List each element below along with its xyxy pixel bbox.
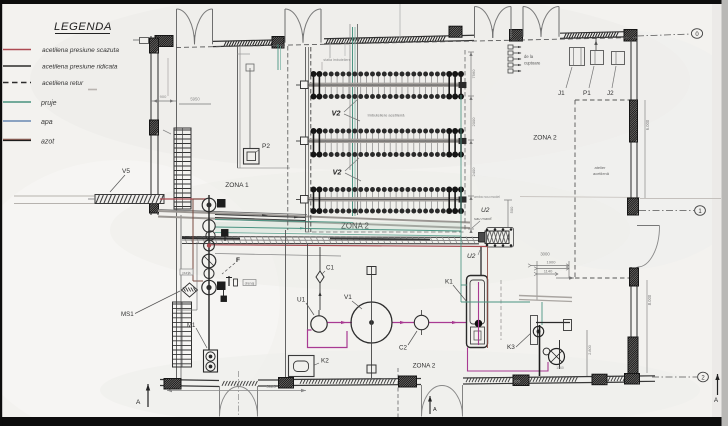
border frame top <box>0 0 728 4</box>
valve square beside circle1 <box>218 200 226 208</box>
V1 bottom square <box>367 365 376 373</box>
right wall door leaf and arc <box>637 225 660 227</box>
V1 top square <box>367 267 376 275</box>
lower staircase <box>173 302 192 367</box>
bottle manifold row1 right end fitting <box>459 82 466 87</box>
legend line acetilena presiune scazuta (red) <box>3 49 31 51</box>
svg-text:500: 500 <box>509 206 514 213</box>
svg-text:5950: 5950 <box>190 97 200 102</box>
legend line pruje (green) <box>3 101 31 103</box>
svg-text:purja: purja <box>183 271 191 275</box>
svg-text:2400: 2400 <box>471 167 476 177</box>
vertical dimension marks on left wall <box>163 130 171 134</box>
door pair top-right B (x522-560) <box>522 7 524 37</box>
manifold circle 3 <box>206 231 215 240</box>
box J2 <box>612 52 625 65</box>
left wall column block y38 <box>150 38 159 53</box>
svg-text:drenaj: drenaj <box>245 281 255 285</box>
valve square beside circle7 <box>218 282 226 290</box>
top wall door post block x512 <box>510 30 523 42</box>
K3 pump 2 flange <box>543 348 550 355</box>
bottom door pair right (x421-463) <box>421 385 423 417</box>
teal drop to K3 <box>541 302 543 325</box>
bottle room dashed boundary x310 <box>310 47 312 232</box>
bottle manifold row1 heavy end stems <box>313 74 315 97</box>
top wall corner column block x625 <box>624 30 637 42</box>
svg-text:V1: V1 <box>344 294 352 301</box>
manifold circle 2 <box>203 220 215 232</box>
pipe rack dark segment left <box>182 237 240 240</box>
compressor V1 big circle <box>351 302 392 343</box>
red acetilena line from V5 to manifold <box>160 198 206 200</box>
svg-text:V2: V2 <box>331 109 341 118</box>
axis bubble 1 with dash-dot <box>639 210 694 212</box>
bottle manifold row3 column stems <box>314 190 462 212</box>
svg-text:C2: C2 <box>399 345 407 352</box>
svg-text:cuptoare: cuptoare <box>524 61 541 66</box>
svg-text:P2: P2 <box>262 143 270 150</box>
bottle manifold row3 bottom circles row <box>311 208 465 214</box>
bottle room dashed boundary right x465 <box>464 50 466 232</box>
pipe rack dark segment mid <box>330 238 430 241</box>
svg-text:K1: K1 <box>445 279 453 286</box>
svg-text:U1: U1 <box>297 297 306 304</box>
bottom wall hatch fill segments <box>222 381 224 386</box>
tall teal line (apa) along P2 right side <box>352 27 354 216</box>
svg-text:A: A <box>714 398 718 404</box>
azot brown riser x193 <box>192 199 194 281</box>
pale green shading band <box>215 222 461 232</box>
bottle manifold row1 pipe <box>306 83 463 85</box>
teal pruje line y219 to x353 <box>215 220 353 223</box>
svg-text:acetilena presiune ridicata: acetilena presiune ridicata <box>42 64 118 71</box>
label box purja left <box>180 269 193 275</box>
bottle manifold row2 right end fitting <box>459 138 466 143</box>
upper staircase <box>174 128 191 209</box>
svg-text:V5: V5 <box>122 168 130 175</box>
teal vertical at right end of rows x461 <box>460 95 462 302</box>
small wall marks x140-150 <box>140 38 149 44</box>
pump U1 circle <box>311 316 327 332</box>
K3 pipe manifold <box>536 322 570 324</box>
gray line y254 <box>215 254 341 257</box>
svg-text:5925: 5925 <box>266 384 276 389</box>
top wall column block at x449 <box>449 26 462 37</box>
axis bubble 2 with dash-dot <box>652 376 697 378</box>
dimension line left corridor 5950 <box>151 100 176 102</box>
valve C1 diamond <box>316 271 324 283</box>
bottle manifold row1 feed box <box>301 81 309 89</box>
gray pipe band to K3 <box>519 296 572 298</box>
bottom wall corner block x625 <box>625 374 640 385</box>
svg-text:3000: 3000 <box>540 252 550 257</box>
P2 room left wall <box>237 44 239 169</box>
svg-text:pruje: pruje <box>40 100 57 107</box>
bottom door centerline dash-dot <box>238 371 240 417</box>
border frame bottom <box>0 417 728 426</box>
manifold circle 5 <box>202 254 216 268</box>
svg-text:U2: U2 <box>481 207 490 214</box>
bottom wall column block x279 <box>279 378 294 389</box>
svg-text:2000: 2000 <box>471 117 476 127</box>
pipe rack band lines y236-243 <box>182 237 479 238</box>
dimension line corridor horizontal 5950 at y104 <box>179 103 211 105</box>
svg-text:1900: 1900 <box>547 260 557 265</box>
svg-text:de la: de la <box>524 54 534 59</box>
bottle manifold row1 top circles row <box>311 71 465 77</box>
svg-text:6.000: 6.000 <box>645 119 650 130</box>
bottle manifold row3 pipe <box>306 197 463 199</box>
right wall column block y198 <box>628 198 639 215</box>
section marker A bottom left <box>147 384 149 407</box>
MS1 hatched diamond <box>182 283 198 297</box>
right wall lower segment <box>630 267 632 377</box>
svg-text:acetilena presiune scazuta: acetilena presiune scazuta <box>42 47 119 54</box>
bottle manifold row2 bottom circles row <box>311 152 465 158</box>
svg-text:J1: J1 <box>558 90 565 97</box>
faint gray line left edge (V5 pipe continuation) <box>14 195 95 197</box>
U2 cylinder left cap <box>479 233 486 243</box>
svg-text:900: 900 <box>160 94 167 99</box>
valve handle symbols below F <box>228 276 230 286</box>
left wall column block y120 <box>150 120 159 135</box>
svg-text:P1: P1 <box>583 90 591 97</box>
faint gray line right side <box>640 198 721 200</box>
dim leader vertical x537 <box>536 261 538 300</box>
bottle manifold row2 top circles row <box>311 128 465 134</box>
teal line y228 long <box>215 227 461 231</box>
valve tap symbol at y233 <box>222 230 229 237</box>
svg-text:atelier: atelier <box>595 165 607 170</box>
label box drenaj right <box>243 280 256 286</box>
U2 frame <box>487 228 514 248</box>
dashed vertical x501 below U2 <box>500 280 502 340</box>
left inner wall vertical x176 <box>176 44 178 381</box>
bottle manifold row2 heavy end stems <box>313 131 315 155</box>
dryer K1 outer <box>467 276 488 348</box>
svg-text:ZONA 2: ZONA 2 <box>533 135 557 142</box>
top wall column block at x157 <box>155 36 173 47</box>
svg-text:K2: K2 <box>321 358 329 365</box>
svg-text:F: F <box>236 257 240 264</box>
bottle room left wall double x305 <box>305 47 307 232</box>
vertical dimension line x168 <box>167 58 169 96</box>
svg-text:MS1: MS1 <box>121 311 134 318</box>
magenta discharge U1 loop <box>308 330 348 348</box>
bottom wall double line full run <box>160 380 219 381</box>
magenta drop from K1 to K3 line <box>468 348 549 372</box>
border frame right gray strip <box>722 0 728 426</box>
dimension line x508 500 <box>507 200 509 228</box>
door pair top-left (x175-213) <box>176 9 178 44</box>
vertical drop lines from top wall into bottle room <box>329 41 331 58</box>
right wall column block y337 <box>628 337 638 375</box>
bottle manifold row3 top circles row <box>311 187 465 193</box>
bottle manifold row3 feed box <box>301 196 309 204</box>
teal line y233 long <box>215 233 461 237</box>
legend line acetilena presiune ridicata (black) <box>3 65 31 67</box>
door pair top mid-left (x284-322) <box>284 9 286 43</box>
magenta main line U1 to V1 to C2 to K1 <box>328 322 353 324</box>
manifold circle 4 with red center <box>204 240 215 251</box>
door pair top-right A (x474-512) <box>474 7 476 38</box>
svg-text:A: A <box>433 407 437 413</box>
dashed zone rectangle right <box>575 99 635 101</box>
riser pipe to P2 <box>249 68 251 148</box>
K3 heavy vertical to wall <box>539 325 541 376</box>
dimension line right of bottle room x471 <box>470 52 472 229</box>
dashed zone vertical x287 upper <box>287 46 289 230</box>
top wall hatch fill west <box>224 42 226 46</box>
box J1 <box>570 48 585 66</box>
P2 room right wall black <box>357 24 359 215</box>
bottle manifold row2 feed box <box>301 137 309 145</box>
svg-text:1560: 1560 <box>556 366 564 370</box>
teal drop from top wall x278 <box>277 44 279 70</box>
section marker A bottom right <box>717 374 719 395</box>
svg-text:acetilena retur: acetilena retur <box>42 80 84 87</box>
K3 pump 2 circle <box>549 349 565 365</box>
cabinet P2 symbol <box>244 149 260 165</box>
legend line apa (blue) <box>3 120 31 122</box>
box K2 <box>289 356 315 377</box>
svg-text:J2: J2 <box>607 90 614 97</box>
svg-text:A: A <box>136 399 141 406</box>
P2 room top inner line <box>238 53 251 55</box>
ZONA2 dashed vertical x398 lower <box>397 368 399 417</box>
zona1 band dark top edge <box>158 210 307 215</box>
magenta inside K1 vertical <box>478 282 480 345</box>
bottle manifold row3 heavy end stems <box>313 190 315 212</box>
black distribution line pair with arrows y215-218 <box>215 215 305 218</box>
svg-text:8.000: 8.000 <box>647 294 652 305</box>
bottle manifold row3 right end fitting <box>459 197 466 202</box>
V1 axis vertical line <box>371 266 373 378</box>
section marker A bottom center <box>429 396 431 414</box>
U2 cylinder body <box>485 231 509 244</box>
zona1 gray band double line <box>158 211 470 223</box>
separator C2 circle <box>414 315 428 329</box>
V5 hatched pipe going left <box>95 195 164 204</box>
stray scan mark near legend <box>88 89 97 91</box>
small tap below circle7 <box>221 296 227 302</box>
svg-text:2.800: 2.800 <box>588 345 592 355</box>
svg-text:U2: U2 <box>467 253 476 260</box>
svg-text:sau manif.: sau manif. <box>474 216 492 221</box>
bottle room bottom dashed y232 <box>305 231 465 233</box>
svg-text:820: 820 <box>514 380 520 384</box>
pipe drop from U2 to K1 <box>480 247 482 276</box>
right wall upper double vertical <box>630 40 632 215</box>
svg-text:K3: K3 <box>507 344 515 351</box>
K3 pump 1 circle <box>533 326 543 336</box>
axis dashed line along top wall <box>176 38 637 48</box>
manifold vertical main pipe x209 <box>208 195 210 350</box>
teal feeds into K1 <box>461 284 467 286</box>
pipe rack hatch ticks <box>184 237 187 244</box>
right wall hatch long block y102-142 <box>630 100 638 142</box>
riser from rack to U1 zone x307 <box>307 244 309 330</box>
vertical dim x587 2800 <box>586 330 588 376</box>
svg-text:ZONA 1: ZONA 1 <box>225 182 249 189</box>
border frame left <box>0 0 2 426</box>
C1 riser from rack <box>319 247 321 271</box>
left outer wall double vertical x150-158 <box>150 36 152 215</box>
de la cuptoare manifold stack <box>508 45 513 49</box>
box P1 <box>591 51 604 65</box>
K1 dark port <box>475 320 482 327</box>
dimension stack 3000/1900/1140 <box>531 265 569 267</box>
svg-text:M1: M1 <box>187 323 196 329</box>
svg-text:1140: 1140 <box>544 269 553 274</box>
bottom wall column block x165 <box>164 379 181 390</box>
dimension line below wall 5925 <box>167 390 306 392</box>
bottom wall column block x593 <box>592 374 607 385</box>
K1 inner upper <box>470 280 485 324</box>
svg-text:V2: V2 <box>332 168 342 177</box>
svg-text:acetilenă: acetilenă <box>593 171 610 176</box>
vertical dimension 8000 lower <box>646 280 648 373</box>
manifold enclosure rectangle <box>196 242 198 310</box>
bottle manifold row2 column stems <box>314 131 462 155</box>
svg-text:LEGENDA: LEGENDA <box>54 21 112 33</box>
svg-text:statia imbuteliere: statia imbuteliere <box>323 58 350 62</box>
vertical dimension 6000 upper <box>644 100 646 198</box>
inner wall vertical x285 (left edge bottom room) <box>285 230 287 380</box>
arrow on C1 riser <box>318 292 321 297</box>
right wall column block y270 <box>630 268 639 286</box>
K3 frame small rect <box>531 316 538 345</box>
svg-text:azot: azot <box>41 139 55 146</box>
manifold circle 7 bottom <box>202 280 216 294</box>
axis 0 dash-dot line to bubble <box>637 34 691 36</box>
bottle manifold row2 pipe <box>306 139 463 141</box>
axis bubble 0 <box>691 29 702 39</box>
left inner wall second line below y215 <box>180 215 182 381</box>
legend line acetilena retur (dashed) <box>3 82 31 84</box>
P2 room bottom edge <box>238 167 291 169</box>
dim arrow to dashed zone at y278 <box>556 277 574 279</box>
red acetilena low pressure line y245 long <box>209 245 487 247</box>
U2 cylinder end dots <box>486 229 488 231</box>
svg-text:îmbuteliere acetilenă: îmbuteliere acetilenă <box>367 113 406 118</box>
bottom wall column block x514 <box>513 375 529 386</box>
dim leader vertical x569 <box>568 261 570 278</box>
manifold circle 1 <box>202 198 216 212</box>
svg-text:apa: apa <box>41 119 53 126</box>
bottle manifold row1 column stems <box>314 74 462 97</box>
svg-text:7560: 7560 <box>471 69 476 79</box>
bottom wall column block x399 <box>399 376 417 387</box>
manifold circle 6 <box>204 269 214 279</box>
maroon azot vertical on K1 right <box>487 246 489 348</box>
top wall double line west segment <box>213 40 284 42</box>
svg-text:ZONA 2: ZONA 2 <box>413 363 436 370</box>
P1 riser to wall <box>595 36 597 51</box>
legend line azot (dark brown) <box>3 140 31 142</box>
svg-text:amba nou model: amba nou model <box>474 195 500 199</box>
bottle manifold row1 bottom circles row <box>311 94 465 100</box>
top wall column block at x273 <box>272 37 284 49</box>
bottom door pair left (x219-258) <box>219 386 221 417</box>
svg-text:C1: C1 <box>326 265 334 272</box>
K1 inner lower box <box>471 327 485 344</box>
pump M1 body <box>204 350 218 372</box>
left wall column block y198 <box>150 197 159 213</box>
